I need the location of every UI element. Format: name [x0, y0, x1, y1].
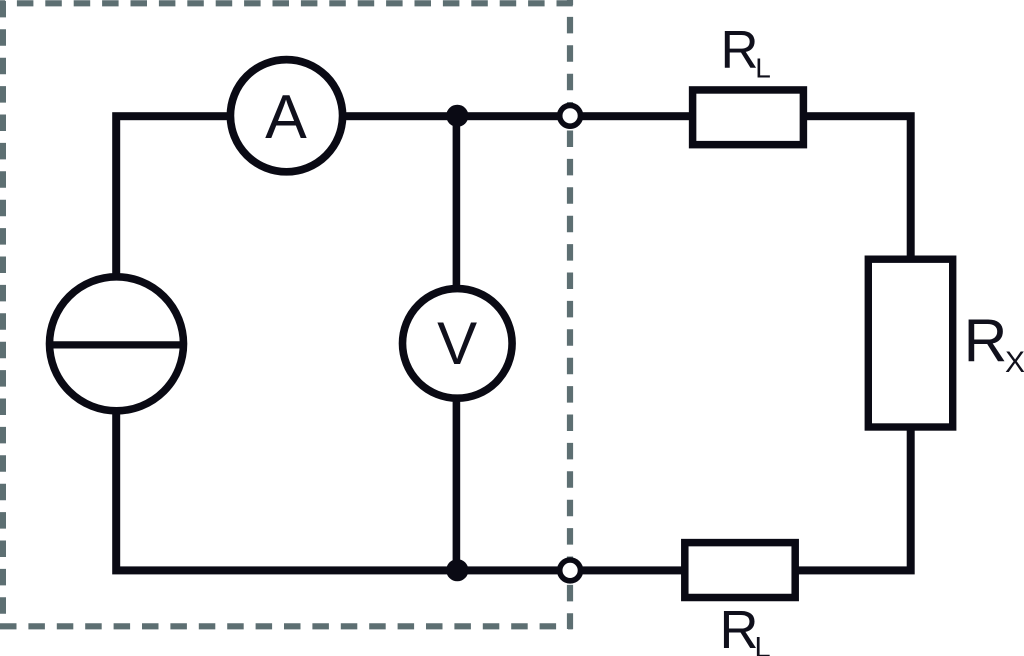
svg-text:L: L: [755, 52, 771, 83]
voltmeter V1 circle: [403, 289, 513, 399]
terminal bottom open: [560, 560, 581, 581]
dashed boundary top edge: [0, 0, 573, 6]
wire voltmeter branch: [453, 116, 461, 570]
node junction top: [446, 105, 468, 127]
dashed boundary bottom edge: [0, 623, 573, 629]
svg-text:R: R: [720, 600, 759, 656]
svg-text:X: X: [1005, 346, 1024, 379]
ammeter A1 circle: [230, 60, 342, 172]
resistor RL bottom body: [685, 543, 795, 598]
resistor RL top body: [693, 90, 804, 145]
terminal top open: [560, 105, 581, 126]
dashed boundary right edge: [567, 0, 573, 629]
dashed boundary left edge: [0, 0, 6, 629]
svg-text:R: R: [721, 21, 759, 80]
svg-text:A: A: [265, 82, 307, 152]
node junction bottom: [446, 559, 468, 581]
wire outer circuit loop: [116, 116, 911, 570]
svg-text:V: V: [437, 310, 477, 377]
svg-text:L: L: [755, 632, 771, 656]
resistor RX body: [868, 259, 952, 427]
current source bar: [47, 341, 186, 348]
svg-text:R: R: [964, 307, 1008, 375]
current source circle: [50, 277, 184, 411]
